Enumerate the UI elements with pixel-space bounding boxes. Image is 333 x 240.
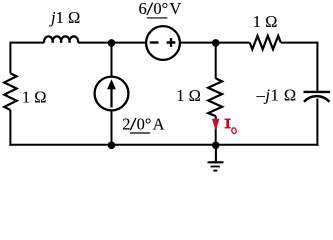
svg-text:2: 2 <box>122 114 130 133</box>
svg-text:j1 Ω: j1 Ω <box>49 8 80 27</box>
svg-text:–j1 Ω: –j1 Ω <box>256 85 297 104</box>
svg-text:6: 6 <box>139 0 147 18</box>
svg-text:1 Ω: 1 Ω <box>176 86 201 105</box>
svg-text:1 Ω: 1 Ω <box>253 12 278 31</box>
svg-text:V: V <box>169 0 181 18</box>
svg-text:A: A <box>153 114 165 133</box>
svg-text:0°: 0° <box>153 0 168 18</box>
svg-text:1 Ω: 1 Ω <box>22 87 47 106</box>
svg-text:0°: 0° <box>137 114 152 133</box>
